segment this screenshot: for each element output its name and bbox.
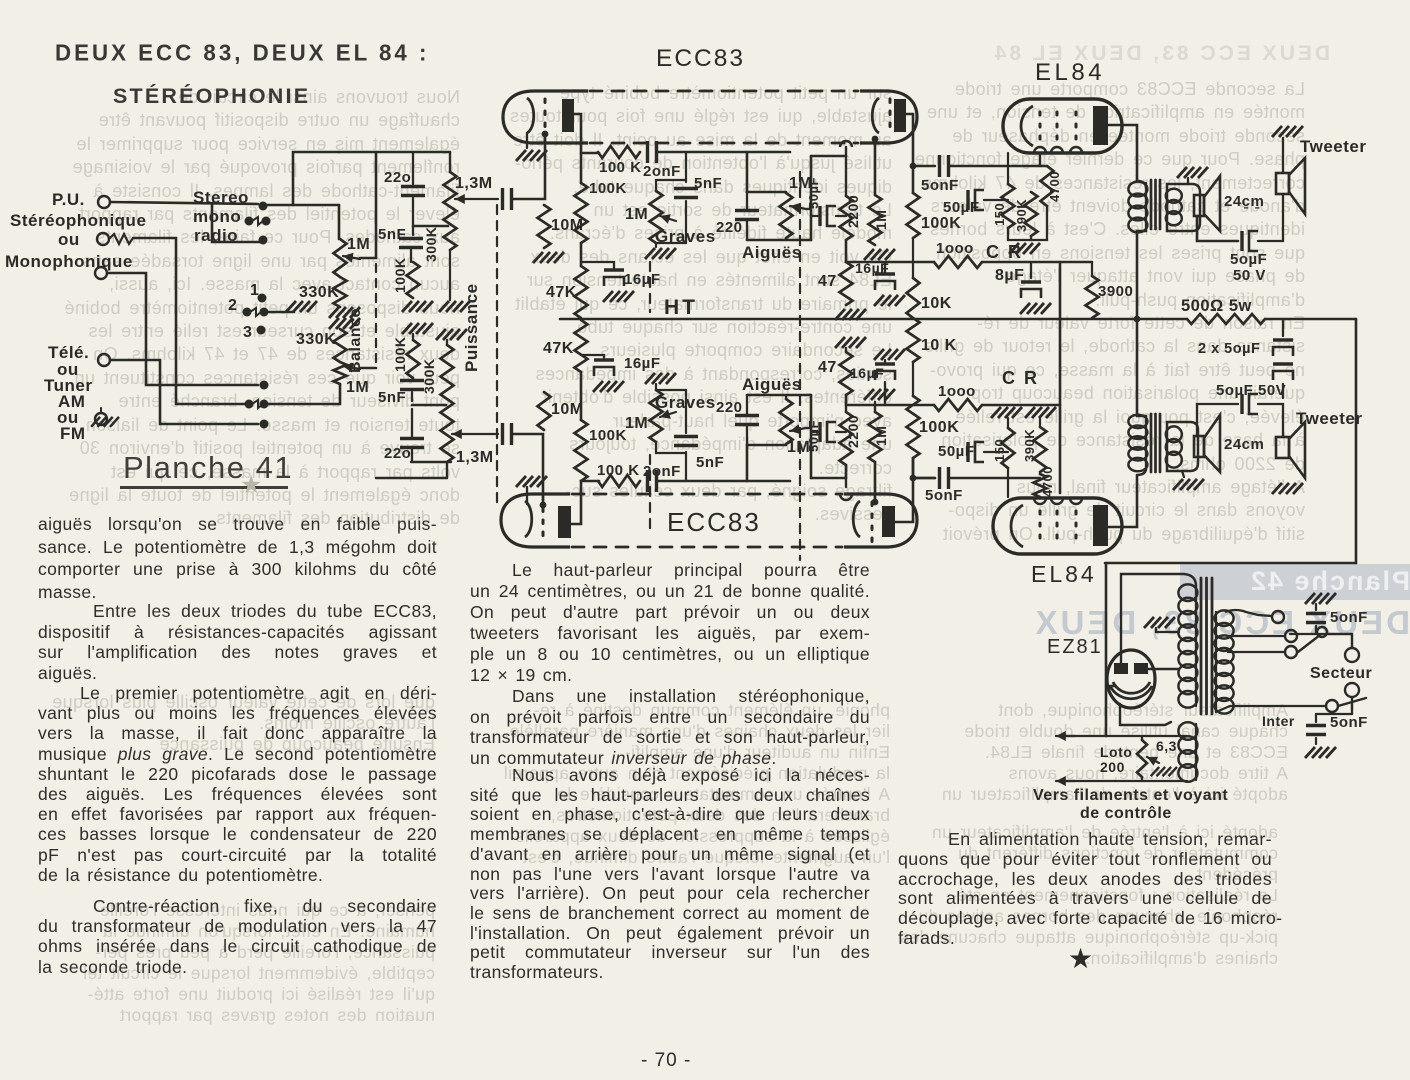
- label Aigues top: [742, 243, 802, 262]
- wire bus to cathode pin V2b: [811, 477, 846, 480]
- resistor 330K lower: [334, 329, 347, 362]
- ground tweeter bottom: [1272, 483, 1303, 494]
- wire supply left vertical: [1105, 563, 1108, 736]
- capacitor 220 upper: [401, 152, 425, 235]
- transformer T2 primary: [1128, 415, 1147, 472]
- svg-text:2200: 2200: [845, 195, 861, 228]
- label 100K splitter upper: [921, 215, 961, 232]
- terminal P.U. shield: [97, 233, 109, 245]
- resistor 4700 grid V4: [1034, 474, 1047, 497]
- svg-text:47K: 47K: [543, 340, 574, 357]
- label Inter: [1262, 713, 1295, 729]
- selector contact radio: [259, 236, 268, 245]
- transformer T1 primary: [1128, 182, 1147, 233]
- svg-text:24cm: 24cm: [1224, 436, 1264, 453]
- label 50uF V4: [938, 443, 975, 460]
- arrow aigues wiper bottom: [790, 424, 806, 434]
- wire treble to pot top: [747, 191, 786, 194]
- capacitor 50nF mains bottom: [1306, 714, 1326, 744]
- dashed line Puissance: [496, 205, 498, 505]
- wire cathode V1b down: [845, 147, 847, 196]
- capacitor 220 lower: [400, 409, 424, 462]
- svg-text:Inter: Inter: [1262, 713, 1295, 729]
- capacitor 20nF coupling top: [648, 141, 657, 163]
- triode V2a envelope (bottom ECC83 left half): [501, 494, 570, 547]
- label 220 upper: [384, 169, 411, 186]
- capacitor 5nF graves top: [674, 152, 698, 243]
- resistor 47K decoupling lower: [575, 320, 588, 372]
- label 3900: [1098, 283, 1133, 300]
- electrolytic 50uF V4: [968, 442, 1008, 462]
- wire 1M splitter top lead: [874, 139, 877, 195]
- svg-text:1M: 1M: [346, 379, 369, 396]
- svg-text:EZ81: EZ81: [1047, 636, 1103, 658]
- wire splitter lower to coupling: [910, 458, 935, 481]
- wire tone junction upper: [413, 225, 448, 228]
- wire CR lower to fb: [982, 404, 1060, 407]
- dashed line graves separator: [649, 262, 651, 530]
- wire wafer3 riser: [176, 312, 246, 404]
- svg-text:300K: 300K: [421, 359, 437, 394]
- svg-text:Graves: Graves: [655, 227, 716, 246]
- label 50uF top: [806, 177, 821, 209]
- label 50uF bottom: [806, 420, 821, 452]
- label 47K lower: [543, 340, 574, 357]
- svg-text:300K: 300K: [423, 227, 439, 262]
- svg-text:47: 47: [818, 273, 837, 290]
- electrolytic 16uF upper: [581, 262, 634, 302]
- svg-text:Monophonique: Monophonique: [5, 252, 133, 271]
- svg-text:Loto: Loto: [1100, 744, 1132, 760]
- wire coupling to tone bottom: [658, 480, 790, 483]
- wire T3 sec tap1: [1225, 610, 1272, 616]
- electrolytic 2x50uF: [1273, 319, 1293, 398]
- svg-text:5nF: 5nF: [696, 454, 724, 471]
- svg-text:5nF: 5nF: [694, 175, 722, 192]
- wire V1a anode lead: [574, 114, 599, 153]
- terminal P.U. stereo L: [98, 196, 110, 208]
- terminal P.U. mono: [95, 267, 107, 279]
- svg-text:100K: 100K: [392, 258, 408, 293]
- wire T2 primary top to HT: [1137, 319, 1146, 416]
- wire P.U. L to selector: [110, 202, 258, 204]
- capacitor 20nF grid lower: [503, 423, 512, 445]
- resistor 150 cath V4: [1002, 428, 1015, 497]
- resistor 10K upper: [907, 238, 920, 318]
- label 100K splitter lower: [919, 419, 959, 436]
- svg-text:3900: 3900: [1098, 283, 1133, 300]
- wire tuner in: [110, 360, 258, 424]
- ground 50nF mains bottom: [1305, 747, 1336, 758]
- wire B+ top rail to supply: [1105, 562, 1356, 565]
- resistor 100K plate load horiz lower: [598, 475, 640, 487]
- label 10K lower: [921, 337, 957, 354]
- anode plate V2b: [882, 506, 895, 537]
- wire V1b to coupling: [913, 165, 935, 167]
- labels Tele ou Tuner AM ou FM: [44, 343, 92, 443]
- wire V5 cathode to supply: [1106, 685, 1116, 687]
- label 150 V4: [992, 439, 1007, 462]
- wire V2b anode lead: [895, 458, 913, 522]
- electrolytic 16uF cath upper: [874, 262, 905, 306]
- selector wafer3 contacts: [245, 381, 269, 409]
- label 24cm top: [1224, 193, 1264, 210]
- capacitor 5nF upper: [399, 239, 423, 263]
- tube V2 envelope dashed joins: [572, 494, 842, 547]
- svg-text:Secteur: Secteur: [1310, 665, 1372, 682]
- ground 1M splitter top: [864, 249, 895, 260]
- label 300K lower: [421, 359, 437, 394]
- labels selector Stereo mono radio: [193, 188, 249, 245]
- label 24cm bottom: [1224, 436, 1264, 453]
- label 4700 V4: [1040, 466, 1055, 497]
- wire mains node top: [1290, 634, 1352, 648]
- svg-text:1M: 1M: [347, 236, 370, 253]
- wire V2b to coupling: [913, 477, 935, 479]
- speaker SP2 24cm: [1194, 415, 1220, 472]
- svg-text:ECC83: ECC83: [667, 507, 761, 537]
- wire treble drop top: [746, 152, 749, 192]
- capacitor 20nF grid upper: [503, 188, 512, 210]
- svg-text:C R: C R: [1002, 368, 1039, 388]
- svg-text:24c̱m̱: 24c̱m̱: [1224, 193, 1264, 210]
- svg-text:330K: 330K: [296, 331, 336, 348]
- star ornament black: [1068, 942, 1093, 975]
- wire CR upper to fb: [982, 261, 1092, 264]
- node V2a grid: [540, 494, 547, 508]
- svg-text:HT: HT: [664, 296, 698, 319]
- ground pot upper: [439, 250, 470, 312]
- selector contacts mono pair: [245, 217, 271, 226]
- resistor 100K lower tone: [407, 340, 420, 378]
- wire treble bus bottom: [806, 395, 811, 478]
- svg-text:47K: 47K: [546, 284, 577, 301]
- label 50nF mains bottom: [1330, 714, 1368, 731]
- svg-text:2200: 2200: [845, 415, 861, 448]
- ground V4 nets: [991, 407, 1056, 428]
- selector wafer2 contacts 2 pair: [243, 308, 269, 317]
- svg-text:EL84: EL84: [1031, 561, 1097, 587]
- wire divider bottom to wafer3: [268, 384, 340, 404]
- label 2200 top: [845, 195, 861, 228]
- grey reverse banner: [1180, 564, 1410, 600]
- wire P.U. mono run: [107, 273, 258, 385]
- transformer T3 secondary HV coil: [1215, 610, 1234, 713]
- svg-text:5oµF: 5oµF: [1230, 251, 1267, 268]
- svg-text:ou: ou: [58, 230, 80, 249]
- node V2b cathode dot: [872, 499, 879, 506]
- wire P.U. shield run: [133, 238, 176, 312]
- label Balance: [347, 308, 364, 373]
- label 150 V3: [992, 203, 1007, 226]
- resistor 10M lower: [538, 392, 551, 430]
- resistor 100K plate load vertical upper: [575, 183, 588, 243]
- triode V1b envelope (top ECC83 right half): [860, 91, 917, 143]
- label 100K plate vertical lower: [589, 427, 627, 444]
- wire selector to divider top: [338, 205, 341, 239]
- svg-text:6,3: 6,3: [1156, 738, 1177, 754]
- label 330K upper: [299, 284, 339, 301]
- electrolytic 50uF V3: [968, 190, 1008, 210]
- label EL84 bottom: [1031, 561, 1097, 587]
- wire coupling upper to EL84: [950, 165, 1040, 168]
- wire coupling lower to EL84: [950, 477, 1040, 480]
- electrolytic 50uF bottom: [811, 422, 846, 442]
- svg-text:220: 220: [716, 219, 743, 236]
- label 50nF mains top: [1330, 609, 1368, 626]
- wire heater top tap: [1062, 735, 1187, 737]
- transformer T3 primary coil: [1178, 584, 1197, 707]
- transformer T1 core: [1151, 180, 1160, 229]
- label Graves bottom: [655, 393, 716, 412]
- label 50uF 50V bottom: [1216, 382, 1286, 399]
- label 1M splitter top: [873, 210, 889, 230]
- svg-text:10 K: 10 K: [921, 337, 957, 354]
- wire treble bus top: [806, 156, 811, 240]
- wire V2a anode lead: [571, 481, 599, 524]
- label 1.3M upper: [455, 175, 493, 192]
- shield squiggle on P.U. lead: [109, 234, 133, 244]
- rheostat hum balance 200: [1137, 736, 1147, 781]
- label 16uF upper: [624, 271, 661, 288]
- label 10K upper: [921, 295, 952, 312]
- label ECC83 bottom: [667, 507, 761, 537]
- wire wiper bus lower: [360, 367, 376, 370]
- label 20nF coupling top: [643, 163, 681, 180]
- wire grid lower: [513, 434, 543, 505]
- arrow heater top: [1056, 731, 1075, 741]
- label 47 upper: [818, 273, 837, 290]
- arrow rheostat wiper: [1147, 757, 1177, 776]
- svg-text:150: 150: [992, 203, 1007, 226]
- svg-text:EL84: EL84: [1035, 59, 1105, 86]
- svg-text:5onF: 5onF: [1330, 714, 1368, 731]
- svg-text:16µF: 16µF: [624, 271, 661, 288]
- wire coupling to tone: [658, 151, 790, 154]
- svg-text:500Ω 5w: 500Ω 5w: [1181, 297, 1252, 315]
- rectifier V5 EZ81 envelope: [1107, 650, 1155, 708]
- wire wiper bus upper: [360, 152, 376, 258]
- arrow wiper balance upper: [343, 253, 360, 263]
- wire selector to mains: [1325, 634, 1352, 648]
- resistor 4700 grid V3: [1040, 153, 1054, 206]
- arrow wiper balance lower: [343, 363, 360, 373]
- svg-text:P.U.: P.U.: [52, 190, 85, 209]
- wire fb vertical: [1059, 262, 1062, 493]
- wire HT rail: [560, 318, 1187, 321]
- wire 500 to right: [1265, 318, 1356, 321]
- svg-text:10K: 10K: [921, 295, 952, 312]
- wire T3 sec tap2: [1228, 635, 1285, 637]
- wire V5 right plate to primary tap: [1148, 668, 1179, 670]
- label 20nF coupling bottom: [643, 463, 681, 480]
- label Secteur: [1310, 665, 1372, 682]
- resistor 2200 cathode top: [840, 196, 853, 240]
- svg-text:22o: 22o: [384, 445, 411, 462]
- label 16uF lower: [624, 355, 661, 372]
- label vers filaments: [1033, 787, 1228, 822]
- capacitor 220 aigues top: [735, 192, 759, 240]
- label 500 ohm 5w: [1181, 297, 1252, 315]
- svg-text:100 K: 100 K: [599, 159, 642, 176]
- wire selector bus down: [212, 203, 260, 242]
- wire B+ right down: [1355, 319, 1358, 563]
- svg-text:100K: 100K: [392, 337, 408, 372]
- label 100K lower tone: [392, 337, 408, 372]
- triode V2b envelope (bottom ECC83 right half): [844, 494, 917, 547]
- terminal tap1: [1272, 611, 1284, 623]
- label 50nF coupling lower: [925, 487, 963, 504]
- capacitor 5nF lower: [400, 381, 424, 402]
- resistor 10K lower: [907, 318, 920, 362]
- speaker SP1 24cm: [1194, 176, 1220, 231]
- ground graves top: [645, 243, 676, 259]
- wire rail to 47 upper: [845, 240, 848, 262]
- resistor 330K upper: [334, 277, 347, 307]
- anode plate V1b: [894, 99, 906, 132]
- wire speaker hot down: [1197, 216, 1238, 241]
- pot 1M aigues top: [780, 193, 793, 238]
- svg-text:Puissance: Puissance: [462, 283, 481, 372]
- selector wafer2 contact 3: [257, 326, 266, 335]
- ground graves bottom: [645, 373, 676, 390]
- electrolytic 16uF lower: [581, 355, 624, 392]
- svg-text:Aiguës: Aiguës: [742, 243, 802, 262]
- pot 1M balance upper: [334, 239, 347, 277]
- ground T1 secondary: [1177, 167, 1208, 184]
- svg-text:1M: 1M: [625, 206, 648, 223]
- resistor 390K V4: [1034, 427, 1047, 472]
- headline DEUX ECC 83, DEUX EL 84: [55, 39, 429, 66]
- svg-text:de contrôle: de contrôle: [1080, 805, 1172, 822]
- label 5nF upper: [378, 226, 406, 243]
- label 50nF coupling upper: [921, 177, 959, 194]
- resistor 10M upper: [538, 205, 551, 248]
- capacitor 50nF coupling lower: [940, 467, 949, 489]
- wire treble drop bottom: [746, 445, 749, 481]
- svg-text:100K: 100K: [589, 427, 627, 444]
- label 1000 CR lower: [938, 383, 976, 400]
- pot 1M balance lower: [334, 362, 347, 384]
- terminal Secteur bottom: [1345, 683, 1359, 697]
- wire grid upper: [513, 134, 545, 199]
- label 5nF lower: [378, 389, 406, 406]
- wire heater bottom tap: [1062, 780, 1187, 782]
- ground T3 primary CT: [1144, 617, 1179, 632]
- pentode V4 EL84 bottom envelope: [993, 498, 1122, 554]
- resistor 47K decoupling upper: [575, 266, 588, 318]
- ground 100K upper tone: [402, 301, 433, 312]
- label 1M balance upper: [347, 236, 370, 253]
- svg-text:100K: 100K: [589, 180, 627, 197]
- selector wafer2 contact 1: [258, 294, 267, 303]
- tweeter TW1: [1276, 138, 1305, 214]
- transformer T3 heater coil: [1178, 722, 1197, 781]
- svg-text:2onF: 2onF: [643, 163, 681, 180]
- svg-text:1ooo: 1ooo: [936, 240, 974, 257]
- wire T1 primary bottom to HT: [1134, 231, 1146, 322]
- label 47K upper: [546, 284, 577, 301]
- resistor 100K plate load vertical lower: [575, 420, 588, 481]
- svg-text:Balance: Balance: [347, 308, 364, 373]
- label CR upper: [986, 242, 1023, 262]
- terminal tap2: [1285, 630, 1297, 642]
- wire V5 plate to primary top: [1121, 574, 1196, 663]
- transformer T1 secondary: [1166, 184, 1200, 231]
- label 2x50uF: [1198, 341, 1260, 357]
- capacitor 5nF graves bottom: [674, 390, 698, 481]
- label 5nF graves bottom: [696, 454, 724, 471]
- ground V3 cathode net: [1008, 206, 1047, 254]
- input label P.U. Stereophonique ou Monophonique: [5, 190, 146, 271]
- headline STEREOPHONIE: [113, 84, 310, 109]
- svg-text:1M: 1M: [625, 415, 648, 432]
- svg-text:5oµF 50V: 5oµF 50V: [1216, 382, 1286, 399]
- svg-text:16µF: 16µF: [624, 355, 661, 372]
- ground pot lower top: [436, 329, 467, 345]
- wire 1M splitter bottom lead: [874, 462, 877, 502]
- capacitor 20nF coupling bottom: [648, 470, 657, 492]
- label 6,3: [1156, 738, 1177, 754]
- terminal tuner in: [98, 354, 110, 366]
- wire T2 sec to speaker: [1197, 404, 1198, 436]
- triode V1a envelope (top ECC83 left half): [503, 91, 588, 143]
- label 220 lower: [384, 445, 411, 462]
- label EZ81: [1047, 636, 1103, 658]
- capacitor 220 aigues bottom: [735, 395, 759, 445]
- ground T2 secondary: [1173, 471, 1204, 490]
- middle column paragraph 1: [470, 560, 870, 686]
- arrow wiper 1.3M upper: [455, 194, 498, 204]
- right column paragraph: [898, 830, 1272, 949]
- wire inter to cap: [1316, 697, 1352, 714]
- wire cathode V2b up: [845, 465, 847, 494]
- svg-text:Stereo: Stereo: [193, 188, 249, 207]
- label 1000 CR upper: [936, 240, 974, 257]
- svg-text:1M: 1M: [873, 210, 889, 230]
- label 390K V4: [1022, 429, 1037, 462]
- label 5nF graves top: [694, 175, 722, 192]
- svg-text:5onF: 5onF: [1330, 609, 1368, 626]
- svg-text:50µF: 50µF: [806, 177, 821, 209]
- pin bump cathode V2b: [840, 494, 852, 500]
- wire plate column top: [580, 153, 583, 183]
- svg-text:150: 150: [992, 439, 1007, 462]
- label Graves top: [655, 227, 716, 246]
- wire CR upper: [846, 261, 934, 264]
- svg-text:4700: 4700: [1047, 171, 1062, 202]
- pot 1M aigues bottom: [780, 399, 793, 444]
- ground V1a cathode: [516, 133, 547, 161]
- pot Graves top 1M: [650, 180, 687, 243]
- svg-text:5onF: 5onF: [921, 177, 959, 194]
- terminal tap4: [1326, 700, 1338, 712]
- label 47 lower: [818, 359, 837, 376]
- caption Planche 41: [123, 450, 293, 486]
- svg-text:5nF: 5nF: [378, 226, 406, 243]
- label 1M balance lower: [346, 379, 369, 396]
- ground 50nF mains top: [1305, 593, 1336, 604]
- ground tuner: [91, 408, 119, 427]
- resistor 100K splitter load lower: [907, 362, 920, 458]
- selector wafer 2 labels 1 2 3: [228, 282, 259, 341]
- label HT: [664, 296, 698, 319]
- label 1.3M lower: [456, 449, 494, 466]
- resistor 100K upper tone: [407, 262, 420, 298]
- resistor 3900: [1086, 262, 1099, 318]
- resistor 47 cathode lower: [840, 352, 853, 395]
- svg-text:1M: 1M: [873, 426, 889, 446]
